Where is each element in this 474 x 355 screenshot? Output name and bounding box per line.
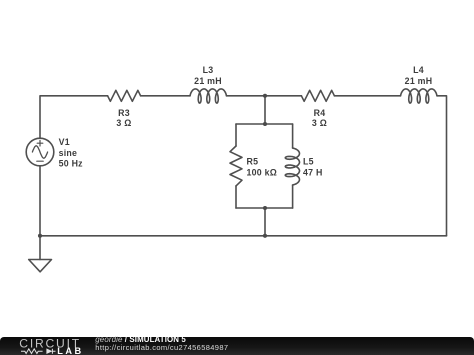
wire L3 to node A <box>227 95 266 97</box>
node junction bottom rail <box>263 234 267 238</box>
wire left vertical and top rail to R3 <box>40 96 108 138</box>
node junction tank top <box>263 122 267 126</box>
inductor L3 <box>190 89 227 103</box>
wire tank right branch top lead <box>292 124 294 148</box>
svg-text:R3: R3 <box>118 108 130 118</box>
svg-text:R4: R4 <box>314 108 326 118</box>
wire L4 to top-right corner and right vertical <box>437 96 447 236</box>
svg-text:LAB: LAB <box>57 346 84 355</box>
svg-text:L4: L4 <box>413 65 424 75</box>
node junction ground <box>38 234 42 238</box>
svg-text:21 mH: 21 mH <box>405 76 433 86</box>
node junction tank bottom <box>263 206 267 210</box>
voltage source V1 <box>26 138 54 166</box>
wire tank bottom to bottom rail <box>264 208 266 236</box>
wire bottom rail <box>40 235 447 237</box>
svg-text:3 Ω: 3 Ω <box>116 118 131 128</box>
svg-text:L5: L5 <box>303 157 314 167</box>
ground <box>29 260 52 272</box>
svg-text:sine: sine <box>59 148 78 158</box>
resistor R5 <box>230 146 242 186</box>
footer bar <box>0 337 474 355</box>
svg-text:L3: L3 <box>203 65 214 75</box>
svg-text:3 Ω: 3 Ω <box>312 118 327 128</box>
svg-text:V1: V1 <box>59 137 70 147</box>
wire R3 to L3 <box>141 95 190 97</box>
inductor L4 <box>401 89 438 103</box>
resistor R4 <box>301 90 334 101</box>
svg-text:50 Hz: 50 Hz <box>59 159 84 169</box>
wire tank bottom rail <box>236 207 293 209</box>
wire tank left branch top lead <box>235 124 237 146</box>
node junction top A <box>263 94 267 98</box>
wire tank left branch bottom lead <box>235 186 237 208</box>
wire tank right branch bottom lead <box>292 185 294 208</box>
wire ground stem <box>39 236 41 260</box>
svg-text:21 mH: 21 mH <box>194 76 222 86</box>
wire V1 bottom to bottom rail <box>39 166 41 236</box>
wire node A down to tank top <box>264 96 266 124</box>
resistor R3 <box>108 90 141 101</box>
svg-text:47 H: 47 H <box>303 167 323 177</box>
svg-text:R5: R5 <box>247 157 259 167</box>
wire tank top rail <box>236 123 293 125</box>
CircuitLab logo <box>0 336 95 355</box>
svg-text:100 kΩ: 100 kΩ <box>247 167 278 177</box>
wire R4 to L4 <box>334 95 400 97</box>
wire node A to R4 <box>265 95 301 97</box>
inductor L5 <box>285 148 299 185</box>
